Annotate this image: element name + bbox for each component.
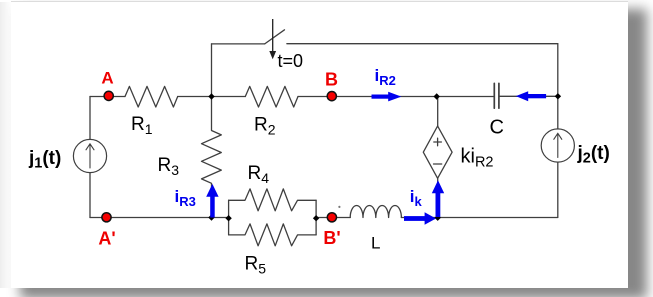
svg-text:t=0: t=0: [278, 51, 304, 71]
svg-text:R4: R4: [248, 163, 270, 186]
svg-text:kiR2: kiR2: [461, 146, 494, 171]
parallel block left bar: [228, 200, 230, 235]
svg-text:iR2: iR2: [375, 66, 396, 88]
current source J1 arrow: [86, 144, 94, 168]
svg-text:A': A': [98, 228, 115, 248]
junction dot at R3 bottom: [208, 214, 214, 220]
wire right branch down to cap node: [557, 44, 559, 129]
wire junction up to top rail: [211, 44, 213, 97]
plus sign in diamond: [434, 138, 442, 146]
svg-text:B: B: [325, 70, 338, 90]
wire junction to parallel block: [212, 217, 229, 219]
capacitor C plates: [494, 83, 499, 108]
wire diamond top lead: [437, 97, 439, 127]
wire left branch top (j1 to node A row): [89, 97, 91, 140]
node A red dot: [104, 91, 113, 100]
current source J1 circle: [73, 139, 106, 172]
svg-text:R5: R5: [245, 254, 267, 277]
wire top rail left: [212, 43, 265, 45]
wire B to capacitor: [298, 96, 494, 98]
svg-text:ik: ik: [410, 187, 423, 209]
wire R1 to junction: [178, 96, 246, 98]
svg-text:R3: R3: [158, 155, 180, 178]
wire top rail right: [287, 43, 558, 45]
wire diamond bottom lead: [437, 178, 439, 217]
wire bottom rail left: [90, 217, 212, 219]
svg-text:j1(t): j1(t): [28, 148, 61, 172]
svg-text:L: L: [371, 234, 380, 253]
current arrow ik vertical (up): [436, 193, 441, 218]
wire bottom rail right: [438, 217, 558, 219]
junction dot parallel left: [225, 215, 231, 221]
svg-text:R1: R1: [131, 114, 153, 137]
resistor R3: [202, 97, 222, 218]
wire inductor to ik node: [401, 217, 437, 219]
wire right branch j2 to bottom: [557, 162, 559, 217]
dependent source U1 diamond ki_R2: [423, 126, 452, 178]
node A' red dot: [102, 213, 111, 222]
junction dot parallel right: [313, 215, 319, 221]
resistor R2: [245, 86, 298, 107]
node B red dot: [327, 92, 336, 101]
svg-text:B': B': [323, 228, 340, 248]
wire B' to inductor: [316, 217, 350, 219]
current source J2 circle: [541, 129, 574, 162]
svg-text:C: C: [490, 116, 504, 138]
wire main row A-B: [90, 96, 125, 98]
node B' red dot: [327, 213, 336, 222]
junction dot at diamond top: [434, 93, 440, 99]
current source J2 arrow: [554, 133, 562, 157]
minus sign in diamond: [434, 163, 442, 165]
junction dot at R1/R2/R3: [208, 93, 214, 99]
inductor L: [350, 205, 401, 217]
junction dot at capacitor right: [555, 93, 561, 99]
stray speck near B': [338, 206, 340, 208]
wire capacitor to right branch: [499, 95, 558, 97]
svg-text:A: A: [101, 69, 113, 88]
svg-text:j2(t): j2(t): [577, 143, 610, 167]
current arrow i_k (right): [404, 216, 425, 221]
current arrow i_R3 (up): [210, 196, 215, 218]
resistor R4: [229, 189, 317, 211]
wire left branch bottom (j1 to bottom rail): [89, 173, 91, 218]
current arrow i_R2: [372, 95, 389, 99]
junction dot at ik node: [435, 215, 441, 221]
current arrow into capacitor (left): [527, 94, 546, 98]
resistor R5: [229, 224, 317, 246]
svg-text:R2: R2: [254, 115, 276, 138]
resistor R1: [125, 86, 178, 107]
parallel block right bar: [315, 200, 317, 235]
switch blade: [265, 30, 285, 44]
svg-text:iR3: iR3: [175, 187, 196, 209]
switch actuator line t=0: [269, 19, 276, 59]
